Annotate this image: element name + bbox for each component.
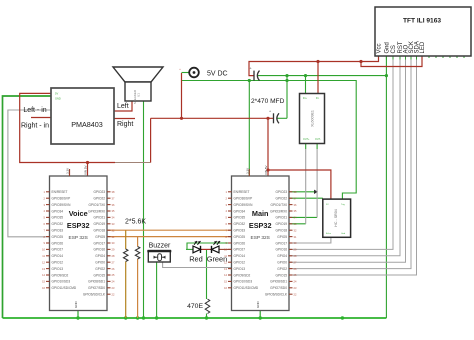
svg-text:GPIO12: GPIO12 [52, 261, 64, 265]
svg-text:Echo: Echo [326, 233, 332, 235]
svg-text:GPIO35: GPIO35 [52, 216, 64, 220]
svg-text:GPIO14: GPIO14 [234, 254, 246, 258]
svg-text:GPIO11/SD/CMD: GPIO11/SD/CMD [52, 286, 77, 290]
svg-text:GPIO19: GPIO19 [275, 222, 287, 226]
svg-text:GPIO4: GPIO4 [277, 254, 287, 258]
svg-text:5V DC: 5V DC [207, 71, 228, 78]
svg-text:GND: GND [55, 97, 61, 101]
svg-text:VIN 5V: VIN 5V [84, 165, 88, 175]
svg-text:GPIO16: GPIO16 [275, 248, 287, 252]
svg-text:GPIO1/TX0: GPIO1/TX0 [271, 203, 288, 207]
svg-text:EN/RESET: EN/RESET [234, 190, 250, 194]
svg-text:GPIO12: GPIO12 [234, 261, 246, 265]
svg-text:2*470 MFD: 2*470 MFD [251, 98, 285, 105]
svg-text:GPIO1/TX0: GPIO1/TX0 [89, 203, 106, 207]
svg-text:GPIO21: GPIO21 [275, 216, 287, 220]
svg-text:GPIO10/SD3: GPIO10/SD3 [234, 280, 253, 284]
svg-text:GPIO4: GPIO4 [95, 254, 105, 258]
svg-text:GPIO17: GPIO17 [275, 241, 287, 245]
svg-text:GPIO25: GPIO25 [52, 235, 64, 239]
svg-text:IN+: IN+ [303, 97, 307, 100]
svg-text:GPIO5: GPIO5 [95, 235, 105, 239]
svg-text:GPIO14: GPIO14 [52, 254, 64, 258]
svg-text:EN/RESET: EN/RESET [52, 190, 68, 194]
svg-text:GPIO32: GPIO32 [52, 222, 64, 226]
svg-text:470E: 470E [187, 303, 203, 310]
svg-text:3.3V: 3.3V [66, 168, 70, 174]
svg-text:GPIO8/SD1: GPIO8/SD1 [88, 280, 105, 284]
svg-text:Vcc: Vcc [377, 43, 383, 53]
svg-text:GPIO16: GPIO16 [93, 248, 105, 252]
svg-text:GPIO22: GPIO22 [275, 197, 287, 201]
svg-text:GPIO32: GPIO32 [234, 222, 246, 226]
svg-text:Right: Right [117, 121, 133, 128]
svg-text:ESP32: ESP32 [249, 221, 272, 230]
svg-text:GPIO7/SD0: GPIO7/SD0 [270, 286, 287, 290]
svg-text:2*5.6K: 2*5.6K [125, 219, 146, 226]
svg-text:GPIO36/SVP: GPIO36/SVP [234, 197, 253, 201]
svg-text:Red: Red [189, 255, 203, 264]
svg-text:GPIO27: GPIO27 [234, 248, 246, 252]
svg-text:Left - in: Left - in [23, 107, 46, 114]
svg-text:GPIO18: GPIO18 [93, 229, 105, 233]
svg-text:GPIO21: GPIO21 [93, 216, 105, 220]
svg-text:GND: GND [74, 301, 78, 309]
svg-text:GPIO33: GPIO33 [234, 229, 246, 233]
svg-text:OUT-: OUT- [315, 138, 321, 141]
svg-text:Right - in: Right - in [21, 123, 49, 130]
svg-text:GPIO27: GPIO27 [52, 248, 64, 252]
svg-text:GPIO6/SD/CLK: GPIO6/SD/CLK [265, 293, 288, 297]
svg-text:GPIO18: GPIO18 [275, 229, 287, 233]
svg-text:GPIO0: GPIO0 [277, 261, 287, 265]
svg-text:GPIO6/SD/CLK: GPIO6/SD/CLK [83, 293, 106, 297]
svg-text:Left: Left [117, 103, 129, 110]
svg-text:5V: 5V [55, 92, 58, 96]
svg-text:GPIO13: GPIO13 [52, 267, 64, 271]
svg-text:GPIO9/SD2: GPIO9/SD2 [234, 273, 251, 277]
svg-text:TFT ILI 9163: TFT ILI 9163 [403, 18, 441, 25]
svg-text:3.3V: 3.3V [245, 168, 249, 174]
svg-text:GPIO34: GPIO34 [52, 209, 64, 213]
svg-text:GPIO23: GPIO23 [93, 190, 105, 194]
svg-text:U1: U1 [137, 93, 141, 97]
svg-text:GPIO22: GPIO22 [93, 197, 105, 201]
svg-text:GPIO39/SVN: GPIO39/SVN [52, 203, 72, 207]
svg-text:GPIO39/SVN: GPIO39/SVN [234, 203, 254, 207]
svg-text:GPIO11/SD/CMD: GPIO11/SD/CMD [234, 286, 259, 290]
svg-text:GPIO5: GPIO5 [277, 235, 287, 239]
svg-text:ESP 32S: ESP 32S [251, 235, 270, 241]
svg-text:GPIO33: GPIO33 [52, 229, 64, 233]
svg-text:GPIO26: GPIO26 [234, 241, 246, 245]
svg-text:CS: CS [391, 45, 397, 53]
svg-text:VIN 5V: VIN 5V [264, 165, 268, 175]
svg-text:+: + [179, 67, 181, 71]
svg-text:PMA8403: PMA8403 [71, 120, 103, 129]
svg-text:IN-: IN- [316, 97, 319, 100]
svg-text:GPIO9/SD2: GPIO9/SD2 [52, 273, 69, 277]
svg-text:GPIO23: GPIO23 [275, 190, 287, 194]
svg-text:ESP 32S: ESP 32S [69, 235, 88, 241]
svg-text:SPEAKER: SPEAKER [133, 89, 137, 104]
svg-text:GPIO3/RX0: GPIO3/RX0 [88, 209, 105, 213]
svg-text:GND: GND [256, 301, 260, 309]
svg-text:GPIO15: GPIO15 [93, 273, 105, 277]
svg-text:Buzzer: Buzzer [149, 243, 171, 250]
svg-text:ESP32: ESP32 [67, 221, 90, 230]
svg-text:OUT+: OUT+ [303, 138, 310, 141]
svg-text:GPIO2: GPIO2 [277, 267, 287, 271]
svg-text:GPIO36/SVP: GPIO36/SVP [52, 197, 71, 201]
svg-text:GPIO13: GPIO13 [234, 267, 246, 271]
svg-text:GPIO7/SD0: GPIO7/SD0 [88, 286, 105, 290]
svg-text:GPIO35: GPIO35 [234, 216, 246, 220]
svg-text:LED: LED [420, 41, 426, 53]
svg-text:XL6009E1: XL6009E1 [311, 110, 315, 127]
svg-text:GPIO0: GPIO0 [95, 261, 105, 265]
svg-text:GPIO19: GPIO19 [93, 222, 105, 226]
svg-text:Gnd: Gnd [384, 42, 390, 53]
svg-text:GPIO15: GPIO15 [275, 273, 287, 277]
svg-text:GPIO3/RX0: GPIO3/RX0 [270, 209, 287, 213]
svg-text:Main: Main [252, 209, 269, 218]
svg-text:GPIO25: GPIO25 [234, 235, 246, 239]
svg-text:GPIO2: GPIO2 [95, 267, 105, 271]
svg-text:HC - SR04: HC - SR04 [334, 209, 338, 226]
svg-text:Voice: Voice [69, 209, 88, 218]
svg-text:GPIO17: GPIO17 [93, 241, 105, 245]
svg-text:GPIO8/SD1: GPIO8/SD1 [270, 280, 287, 284]
svg-text:GPIO26: GPIO26 [52, 241, 64, 245]
svg-text:GPIO34: GPIO34 [234, 209, 246, 213]
svg-text:GPIO10/SD3: GPIO10/SD3 [52, 280, 71, 284]
